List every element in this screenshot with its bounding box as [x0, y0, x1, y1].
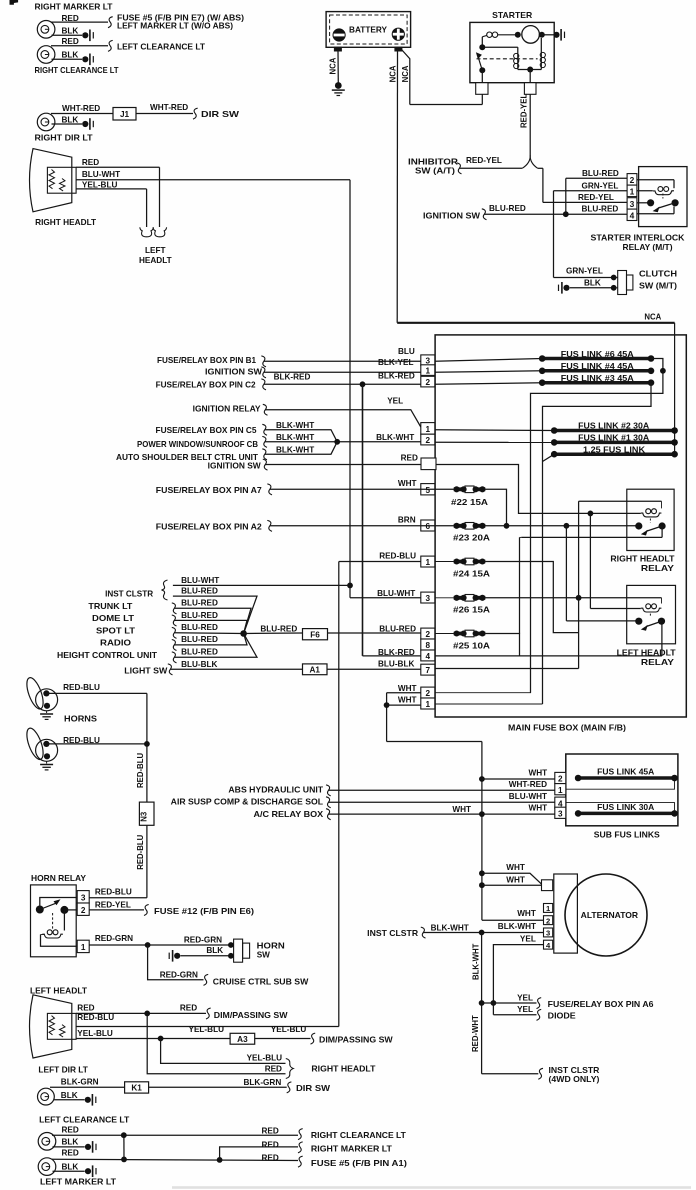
fuse box pin 1 [421, 365, 435, 376]
filament high beam [49, 1016, 55, 1035]
brace right headlt [286, 1059, 294, 1079]
svg-text:3: 3 [630, 199, 635, 209]
svg-text:FUSE/RELAY BOX PIN C5: FUSE/RELAY BOX PIN C5 [156, 426, 257, 435]
svg-text:3: 3 [426, 594, 431, 603]
wire YEL to diode [493, 1014, 536, 1016]
svg-text:BLK-WHT: BLK-WHT [472, 943, 481, 980]
svg-text:DOME LT: DOME LT [92, 614, 134, 623]
svg-text:RED: RED [262, 1153, 279, 1162]
svg-text:RELAY (M/T): RELAY (M/T) [623, 243, 673, 252]
interlock relay coil [653, 187, 674, 195]
fuse box pin 8 [421, 639, 435, 650]
relay link dashed [649, 614, 651, 618]
connector [172, 640, 177, 651]
fuse #24 15A [454, 558, 486, 565]
interlock pin box 3 [627, 198, 637, 209]
connector [261, 379, 266, 390]
junction clutch pin [611, 285, 617, 291]
alternator pin 1 [544, 904, 553, 913]
wire battery positive to starter [402, 50, 410, 105]
wire GRN-YEL to clutch sw [554, 277, 614, 279]
junction [121, 1157, 127, 1163]
connector left headlt pin 1 [140, 227, 154, 237]
svg-text:DIODE: DIODE [548, 1011, 577, 1020]
connector inhibitor sw [457, 163, 462, 174]
svg-text:BLK: BLK [62, 27, 79, 36]
wire BLU-BLK to pin 7 [327, 668, 421, 670]
svg-text:5: 5 [426, 486, 431, 495]
starter field coil 1 [514, 53, 519, 68]
horn switch plunger [243, 943, 250, 958]
svg-text:WHT: WHT [398, 479, 417, 488]
svg-text:HEADLT: HEADLT [139, 256, 172, 265]
junction RED [144, 1011, 150, 1017]
connector K1 [125, 1082, 149, 1093]
svg-text:4: 4 [426, 652, 431, 661]
wire WHT-RED to dir sw [136, 113, 193, 115]
svg-text:RED: RED [62, 1125, 79, 1134]
svg-text:DIR SW: DIR SW [296, 1084, 330, 1093]
wire BLU-RED spot lt [174, 632, 244, 635]
fuse box pin 2 (#25 row) [421, 628, 435, 639]
connector to DIR SW [193, 108, 198, 119]
connector [172, 615, 177, 626]
wire NCA battery positive down [396, 51, 398, 323]
connector left headlt pin 2 [153, 227, 167, 237]
wire [482, 46, 518, 48]
svg-text:WHT: WHT [517, 909, 536, 918]
sub fus link pin 3 [555, 807, 566, 818]
connector A3 [230, 1033, 255, 1044]
wire BLK right marker [52, 34, 83, 36]
svg-text:1.25 FUS LINK: 1.25 FUS LINK [583, 445, 645, 454]
svg-text:BLK-RED: BLK-RED [378, 648, 415, 657]
svg-text:FUSE/RELAY BOX PIN A6: FUSE/RELAY BOX PIN A6 [548, 1000, 654, 1009]
connector [537, 1009, 542, 1020]
svg-text:A/C RELAY BOX: A/C RELAY BOX [254, 810, 324, 819]
sub fus link pin 1 [555, 784, 566, 795]
connector [326, 797, 331, 808]
ground horn sw [169, 950, 180, 962]
connector F6 [303, 629, 328, 640]
wire [538, 167, 543, 169]
wire BLK-GRN to dir sw [149, 1086, 287, 1088]
svg-text:RIGHT MARKER LT: RIGHT MARKER LT [311, 1144, 392, 1153]
svg-text:HEIGHT CONTROL UNIT: HEIGHT CONTROL UNIT [57, 651, 157, 660]
svg-text:YEL: YEL [517, 1005, 533, 1014]
relay link dashed [649, 519, 651, 523]
fusible link #3 45A [539, 379, 654, 386]
connector right marker [298, 1142, 303, 1153]
svg-text:1: 1 [81, 943, 86, 952]
connector to fuse #5 [108, 17, 113, 28]
svg-text:BLK-WHT: BLK-WHT [276, 433, 314, 442]
wire WHT to fuse 22 [270, 488, 454, 490]
svg-text:2: 2 [426, 378, 431, 387]
alternator pin 4 [544, 940, 553, 949]
svg-text:BLK: BLK [61, 1091, 78, 1100]
left relay coil [641, 604, 662, 612]
fuse box pin 2 [421, 434, 435, 445]
svg-text:RADIO: RADIO [100, 639, 132, 648]
svg-text:BLU-RED: BLU-RED [379, 625, 416, 634]
svg-text:RED-GRN: RED-GRN [160, 971, 198, 980]
svg-text:RIGHT HEADLT: RIGHT HEADLT [35, 218, 96, 227]
wire BLU-RED height ctrl [174, 634, 257, 658]
fuse box pin 2 [421, 376, 435, 387]
wire BLK clutch sw [570, 287, 614, 289]
wire pin1 to fus link 4 [435, 371, 542, 373]
svg-text:LIGHT SW: LIGHT SW [124, 666, 167, 675]
svg-text:YEL-BLU: YEL-BLU [82, 181, 118, 190]
svg-text:BLK: BLK [62, 116, 79, 125]
svg-text:6: 6 [426, 522, 431, 531]
junction [479, 882, 485, 888]
junction horns [144, 741, 150, 747]
wire motor to ground [539, 34, 554, 36]
svg-text:RIGHT MARKER LT: RIGHT MARKER LT [35, 3, 113, 12]
wire BLU-WHT air susp [328, 801, 555, 803]
svg-text:#24 15A: #24 15A [453, 569, 490, 578]
wire YEL to fuse/relay box pin A6 [482, 1002, 537, 1004]
connector [267, 520, 272, 531]
horn relay coil [42, 930, 63, 938]
svg-text:YEL: YEL [520, 934, 536, 943]
starter switch arrowhead [476, 52, 482, 59]
connector [168, 664, 173, 675]
svg-text:YEL-BLU: YEL-BLU [271, 1025, 307, 1034]
alternator connector housing [554, 874, 578, 953]
horn relay pin 2 [77, 903, 89, 915]
svg-text:BLK: BLK [62, 1162, 79, 1171]
wire RED-YEL from starter [529, 94, 531, 155]
wire pin1 to fus link 2 [435, 429, 554, 432]
junction [217, 1157, 223, 1163]
wire RED right clearance [51, 45, 108, 47]
svg-text:FUSE/RELAY BOX PIN C2: FUSE/RELAY BOX PIN C2 [156, 381, 256, 390]
wire fuse 23 to relay contact [485, 525, 639, 527]
svg-text:IGNITION SW: IGNITION SW [205, 367, 262, 376]
svg-text:RELAY: RELAY [641, 564, 675, 573]
svg-text:#25 10A: #25 10A [453, 641, 490, 650]
ground [82, 54, 93, 66]
svg-text:YEL: YEL [387, 396, 403, 405]
horn relay contact left [36, 906, 44, 914]
wire BLK-WHT to pin 2 [265, 441, 421, 443]
svg-text:3: 3 [81, 894, 86, 903]
right relay coil [641, 509, 662, 517]
wire GRN-YEL down to clutch sw [553, 191, 555, 278]
junction YEL-BLU [158, 1036, 164, 1042]
alternator pin 2 [544, 916, 553, 925]
svg-text:FUS LINK 30A: FUS LINK 30A [597, 803, 654, 812]
sub fus links box [566, 754, 678, 826]
svg-text:CRUISE CTRL SUB SW: CRUISE CTRL SUB SW [213, 977, 309, 986]
svg-text:SW (A/T): SW (A/T) [415, 167, 455, 176]
connector [326, 785, 331, 796]
svg-text:FUSE #12 (F/B PIN E6): FUSE #12 (F/B PIN E6) [154, 907, 254, 916]
svg-text:INST CLSTR: INST CLSTR [105, 589, 153, 598]
wire sub link 30A to pin 4 [566, 803, 675, 811]
wire YEL-BLU to right headlt [161, 1039, 286, 1064]
wire BLU-RED to pin 2 [566, 177, 627, 179]
wire starter lug stub [481, 94, 483, 104]
wire RED-BLU horn 1 [47, 692, 147, 694]
svg-text:3: 3 [546, 929, 550, 938]
svg-text:WHT: WHT [452, 805, 471, 814]
fusible link #1 30A [551, 439, 678, 446]
wire YEL-BLU down to left headlt stub [146, 189, 148, 227]
wire to coil [63, 910, 65, 931]
connector [537, 998, 542, 1009]
horn 1 [24, 676, 58, 720]
left headlight body [30, 995, 72, 1058]
junction [527, 67, 533, 73]
svg-text:2: 2 [81, 906, 86, 915]
fuse box pin 3 (#26 row) [421, 592, 435, 603]
svg-text:8: 8 [426, 641, 431, 650]
starter field coil 2 [540, 52, 545, 67]
wire RED-YEL down [542, 168, 544, 202]
interlock relay contact [647, 199, 679, 212]
brace inst clstr [162, 580, 168, 600]
wire pin1 internal [435, 703, 543, 705]
svg-text:DIR SW: DIR SW [201, 110, 239, 119]
wire BLK-WHT belt ctrl [265, 442, 338, 454]
wire RED-GRN pin 1 to horn sw [89, 944, 231, 946]
svg-text:BLU-BLK: BLU-BLK [181, 660, 217, 669]
connector [172, 603, 177, 614]
svg-text:4: 4 [630, 210, 635, 220]
connector dim/passing [206, 1008, 211, 1019]
svg-text:RED: RED [62, 1148, 79, 1157]
horn relay link dashed [52, 913, 54, 929]
svg-text:BLU-RED: BLU-RED [489, 204, 526, 213]
svg-text:RED-BLU: RED-BLU [379, 552, 416, 561]
svg-text:INHIBITOR: INHIBITOR [408, 158, 458, 167]
junction [491, 1000, 497, 1006]
fusible link 45A [575, 775, 678, 782]
right headlight bulb housing [47, 167, 76, 193]
wire WHT vertical [481, 742, 483, 921]
right headlt relay box [627, 489, 674, 550]
wire BLK-RED down to pin 4 row [362, 384, 364, 656]
wire RED-YEL to inhibitor [459, 167, 522, 169]
svg-text:WHT: WHT [398, 696, 417, 705]
svg-text:RIGHT HEADLT: RIGHT HEADLT [311, 1065, 375, 1074]
junction BLK-WHT [334, 439, 340, 445]
svg-text:RED-GRN: RED-GRN [95, 934, 133, 943]
svg-text:2: 2 [558, 775, 563, 784]
connector [172, 652, 177, 663]
svg-text:N3: N3 [140, 811, 149, 822]
junction [563, 211, 569, 217]
fuse #26 15A [454, 595, 486, 602]
svg-text:WHT-RED: WHT-RED [62, 104, 100, 113]
fuse box pin 4 [421, 650, 435, 661]
connector [263, 459, 268, 470]
svg-text:BLU-WHT: BLU-WHT [82, 170, 120, 179]
svg-text:FUS LINK #6 45A: FUS LINK #6 45A [561, 350, 634, 359]
wire BLK-GRN to K1 [50, 1086, 125, 1088]
svg-text:YEL-BLU: YEL-BLU [77, 1029, 113, 1038]
junction solenoid [479, 44, 485, 50]
svg-text:RED-BLU: RED-BLU [95, 888, 132, 897]
wire RED-BLU [339, 561, 421, 563]
connector [261, 356, 266, 367]
wire fork right [530, 155, 538, 168]
wire pin2 internal [637, 179, 674, 181]
svg-text:3: 3 [558, 810, 563, 819]
wire RED-WHT to inst clstr 4wd [482, 1073, 539, 1075]
ground clutch [559, 282, 570, 294]
alternator pin 3 [544, 928, 553, 937]
svg-text:SUB FUS LINKS: SUB FUS LINKS [594, 830, 661, 839]
ground [85, 1165, 96, 1177]
svg-text:1: 1 [426, 558, 431, 567]
wire BLK-RED to pin 2 [264, 383, 421, 385]
wire RED-YEL pin 2 [89, 909, 144, 911]
wire WHT to sub link 2 [482, 778, 555, 780]
wire RED-BLU down to horn relay [146, 693, 148, 897]
svg-text:BLU-RED: BLU-RED [582, 169, 619, 178]
svg-text:BLU-RED: BLU-RED [260, 625, 297, 634]
svg-text:RED: RED [262, 1126, 279, 1135]
lamp right clearance LT [37, 46, 55, 64]
interlock pin box 2 [627, 174, 637, 186]
ground starter [553, 29, 564, 41]
junction [479, 930, 485, 936]
wire RED-YEL to relay pin 3 [543, 201, 627, 203]
fuse #23 20A [454, 523, 486, 530]
wire GRN-YEL to pin 1 [554, 190, 628, 192]
junction light sw line [576, 595, 582, 601]
svg-text:RED-WHT: RED-WHT [471, 1015, 480, 1052]
junction [479, 67, 485, 73]
wire BLU-RED ignition sw to pin 4 [484, 213, 627, 215]
wire BLU-BLK light sw [170, 668, 303, 670]
wire BLK left dir [54, 1099, 85, 1101]
svg-text:BLK-WHT: BLK-WHT [276, 421, 314, 430]
svg-text:BLU: BLU [398, 347, 415, 356]
junction [515, 32, 521, 38]
wire fus link 3 to pin 1 bottom [543, 383, 652, 704]
horn relay box [31, 885, 77, 957]
svg-text:ALTERNATOR: ALTERNATOR [581, 911, 638, 920]
starter terminal lug left [476, 83, 488, 95]
svg-text:#26 15A: #26 15A [453, 605, 490, 614]
wire BLU-WHT vertical from right headlt [349, 180, 351, 598]
svg-text:WHT: WHT [398, 684, 417, 693]
junction horn sw [228, 953, 234, 959]
lamp left dir LT [38, 1088, 55, 1105]
svg-text:1: 1 [558, 786, 563, 795]
junction [121, 1132, 127, 1138]
junction clutch pin [611, 275, 617, 281]
wire up to contact [661, 625, 663, 656]
left headlight bulb housing [47, 1013, 76, 1039]
svg-text:IGNITION SW: IGNITION SW [423, 212, 480, 221]
horn relay contact right [60, 906, 68, 914]
connector [261, 367, 266, 378]
wire to starter terminal [529, 70, 531, 95]
wire switch to terminal [481, 70, 483, 94]
fuse box pin 7 [421, 664, 435, 675]
fuse box pin 5 [421, 484, 435, 495]
svg-text:BLU-BLK: BLU-BLK [378, 659, 414, 668]
lamp right marker LT [37, 21, 55, 39]
svg-text:RED: RED [262, 1140, 279, 1149]
connector J1 [113, 108, 136, 121]
svg-text:RIGHT CLEARANCE LT: RIGHT CLEARANCE LT [311, 1131, 406, 1140]
ground [82, 30, 93, 42]
wire BLK right clearance [52, 58, 83, 60]
wire RED-BLU to fuse box [76, 1026, 339, 1028]
wire YEL-BLU to A3 [76, 1038, 230, 1040]
svg-text:BLK-WHT: BLK-WHT [431, 924, 469, 933]
svg-text:1: 1 [630, 186, 635, 196]
clutch switch plunger [627, 275, 633, 290]
junction [539, 32, 545, 38]
svg-text:BLU-WHT: BLU-WHT [181, 576, 219, 585]
svg-text:LEFT MARKER LT (W/O ABS): LEFT MARKER LT (W/O ABS) [117, 22, 233, 31]
svg-text:RED: RED [77, 1004, 94, 1013]
wire fus link 6/4 to pin 2 bottom [531, 359, 663, 693]
wire coil feed down [589, 513, 591, 608]
svg-text:1: 1 [426, 367, 431, 376]
wire WHT pin1 bottom [387, 704, 421, 706]
horn switch body [234, 939, 243, 962]
battery positive terminal symbol [392, 28, 405, 41]
wire fuse 26 to relay coils [485, 597, 661, 599]
svg-text:NCA: NCA [401, 65, 410, 82]
svg-text:RED: RED [401, 453, 418, 462]
svg-text:BRN: BRN [398, 515, 416, 524]
svg-text:2: 2 [426, 630, 431, 639]
svg-text:BLK-WHT: BLK-WHT [276, 445, 314, 454]
right headlight body [30, 149, 72, 212]
junction [479, 776, 485, 782]
wire relay output left [521, 536, 662, 538]
svg-text:#22 15A: #22 15A [451, 498, 488, 507]
starter interlock relay box [639, 167, 687, 227]
wire BLU-RED from F6 [328, 632, 421, 634]
filament low beam [60, 179, 66, 191]
svg-text:K1: K1 [131, 1084, 142, 1093]
junction [479, 1000, 485, 1006]
wire RED-BLU pin 3 [89, 897, 147, 899]
wire pin2 to fus link 3 [435, 383, 542, 385]
svg-text:WHT-RED: WHT-RED [509, 780, 547, 789]
starter terminal lug right [524, 83, 536, 95]
wire to left relay contact left [566, 620, 638, 622]
connector [262, 424, 267, 435]
ground left dir [85, 1094, 96, 1106]
svg-text:TRUNK LT: TRUNK LT [88, 602, 132, 611]
svg-text:DIM/PASSING SW: DIM/PASSING SW [214, 1011, 288, 1020]
wire to right relay coil [579, 500, 662, 502]
svg-text:YEL: YEL [517, 993, 533, 1002]
fuse box pin 1 [421, 423, 435, 435]
svg-text:RED-BLU: RED-BLU [136, 753, 145, 788]
connector [262, 436, 267, 447]
svg-text:RED: RED [265, 1064, 282, 1073]
svg-text:GRN-YEL: GRN-YEL [582, 181, 619, 190]
junction fus link 4 [660, 368, 666, 374]
battery negative terminal symbol [333, 28, 346, 41]
starter switch arm [479, 59, 483, 71]
left relay contact [635, 618, 665, 631]
